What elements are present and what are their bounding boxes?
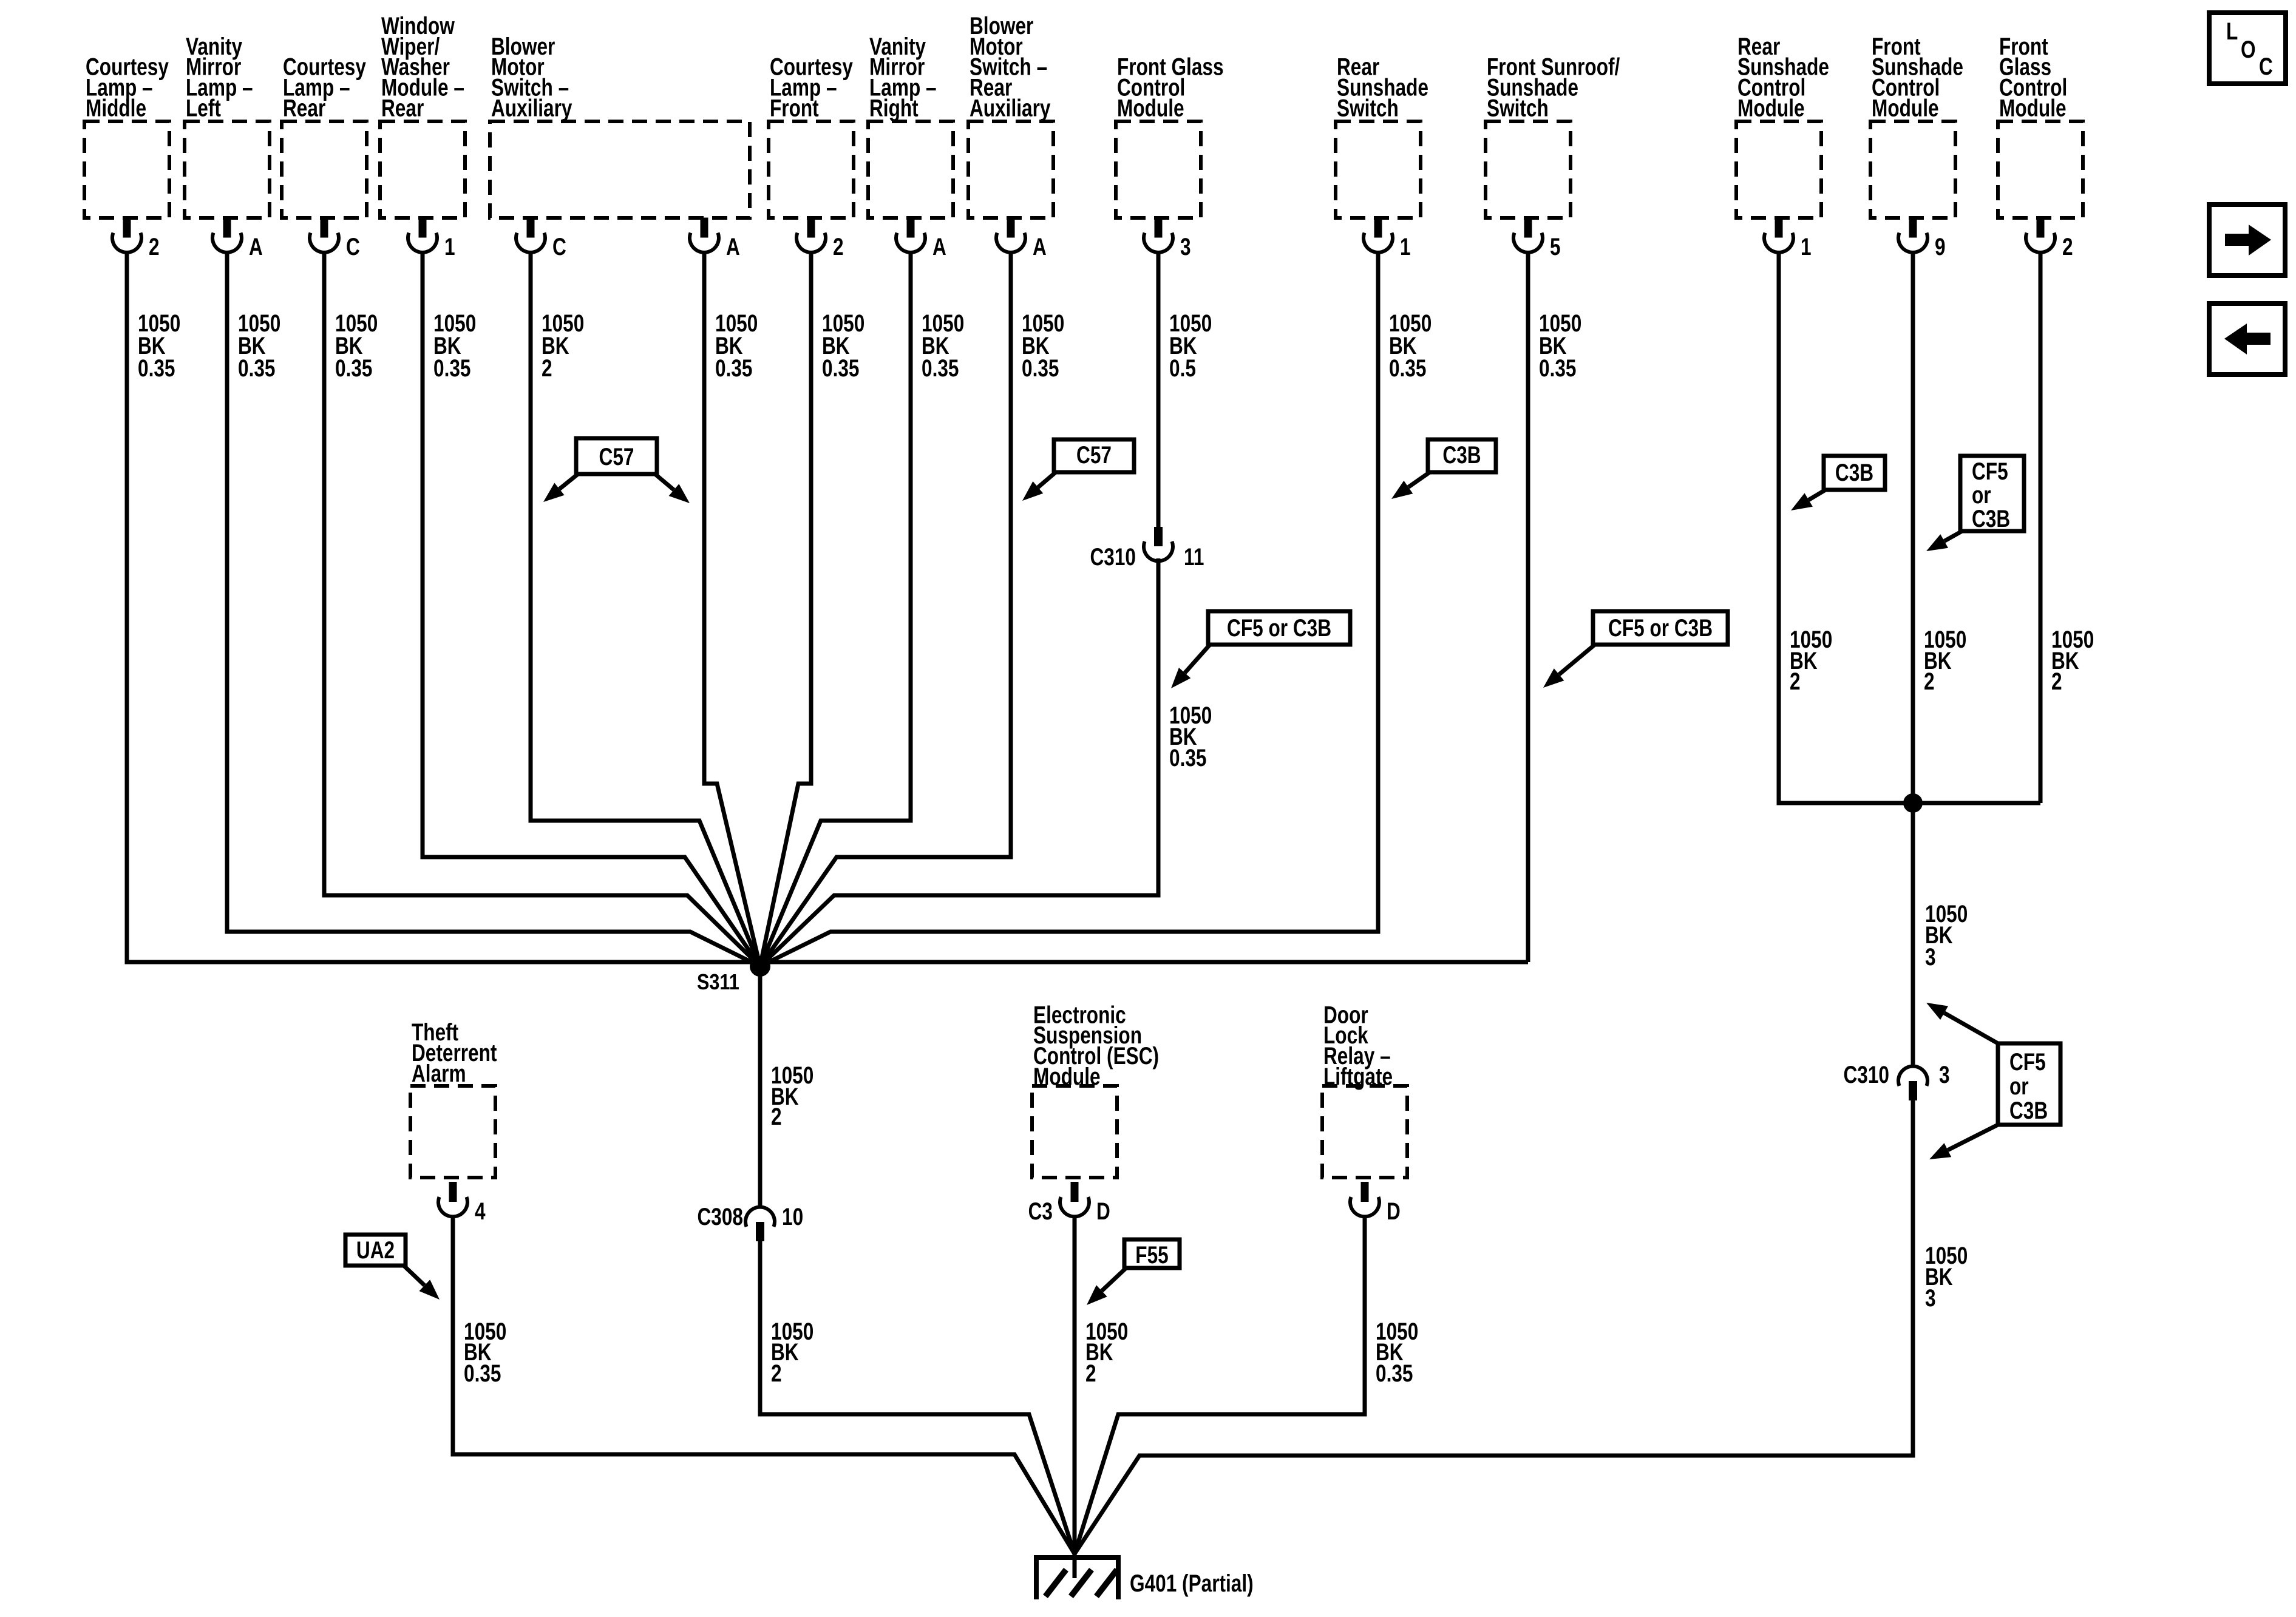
svg-text:9: 9 bbox=[1935, 232, 1946, 260]
svg-text:11: 11 bbox=[1184, 543, 1204, 570]
svg-text:3: 3 bbox=[1939, 1060, 1950, 1088]
wire label 1050 BK 0.35 bbox=[715, 309, 758, 381]
blower motor switch - auxiliary bbox=[490, 32, 750, 218]
theft deterrent alarm bbox=[410, 1019, 497, 1178]
wire label 1050 BK 0.35 bbox=[433, 309, 476, 381]
pin 2 of courtesy lamp - front bbox=[796, 218, 844, 260]
wire label 1050 BK 2 (front sunshade control module) bbox=[1924, 625, 1966, 694]
vanity mirror lamp - right bbox=[868, 32, 953, 218]
wire label 1050 BK 0.5 bbox=[1169, 309, 1212, 381]
wire label 1050 BK 0.35 bbox=[922, 309, 964, 381]
courtesy lamp - front bbox=[769, 53, 854, 218]
wire label 1050 BK 0.35 bbox=[238, 309, 280, 381]
wire label 1050 BK 0.35 (below C310) bbox=[1169, 701, 1212, 771]
pin 3 of front glass control module bbox=[1144, 218, 1191, 260]
courtesy lamp - rear bbox=[282, 53, 367, 218]
wire C310 pin 3 to ground bus bbox=[1075, 1100, 1913, 1554]
left arrow box bbox=[2209, 303, 2285, 375]
wire label 1050 BK 0.35 bbox=[335, 309, 378, 381]
wire label 1050 BK 0.35 bbox=[138, 309, 180, 381]
svg-text:G401 (Partial): G401 (Partial) bbox=[1130, 1569, 1254, 1596]
wire blower motor switch auxiliary pin C to S311 bbox=[531, 252, 760, 966]
wire C308 pin 10 to ground bus bbox=[760, 1238, 1075, 1554]
LOC legend box bbox=[2209, 13, 2286, 84]
wire front glass control module to C310 pin 11 bbox=[1156, 252, 1161, 528]
svg-text:A: A bbox=[249, 232, 263, 260]
wire label 1050 BK 2 bbox=[542, 309, 584, 381]
in-line connector C310 pin 11 bbox=[1090, 527, 1204, 571]
pin 9 of front sunshade control module bbox=[1898, 218, 1946, 260]
svg-text:0.35: 0.35 bbox=[1539, 354, 1576, 381]
front sunshade control module bbox=[1870, 32, 1963, 218]
vanity mirror lamp - left bbox=[185, 32, 270, 218]
svg-text:Middle: Middle bbox=[86, 94, 146, 121]
front glass control module (right) bbox=[1998, 32, 2083, 218]
front glass control module bbox=[1116, 53, 1224, 218]
wire courtesy lamp rear to S311 bbox=[324, 252, 760, 966]
svg-text:Module: Module bbox=[1117, 94, 1184, 121]
pin C of blower motor switch - auxiliary bbox=[516, 218, 566, 260]
wire theft deterrent alarm to ground bus bbox=[453, 1216, 1075, 1554]
svg-text:L: L bbox=[2226, 17, 2238, 44]
svg-text:Alarm: Alarm bbox=[412, 1059, 466, 1086]
svg-text:0.35: 0.35 bbox=[715, 354, 752, 381]
pin 5 of front sunroof/sunshade switch bbox=[1513, 218, 1561, 260]
svg-text:CF5 or C3B: CF5 or C3B bbox=[1227, 614, 1331, 641]
connector label F55 bbox=[1087, 1239, 1180, 1305]
svg-text:0.35: 0.35 bbox=[433, 354, 470, 381]
svg-text:0.35: 0.35 bbox=[335, 354, 372, 381]
wire label 1050 BK 2 (above C308) bbox=[771, 1061, 813, 1130]
pin 1 of window wiper/washer module - rear bbox=[408, 218, 455, 260]
wire rear sunshade switch to S311 bbox=[760, 252, 1378, 966]
svg-text:2: 2 bbox=[1085, 1359, 1096, 1386]
pin D of door lock relay - liftgate bbox=[1350, 1182, 1401, 1225]
svg-text:3: 3 bbox=[1925, 943, 1936, 970]
wire label 1050 BK 0.35 bbox=[1022, 309, 1064, 381]
svg-text:0.35: 0.35 bbox=[1389, 354, 1426, 381]
pin D of electronic suspension control (ESC) module bbox=[1060, 1182, 1110, 1225]
svg-text:Front: Front bbox=[770, 94, 819, 121]
wire S311 to C308 pin 10 bbox=[758, 966, 763, 1207]
svg-text:C: C bbox=[346, 232, 360, 260]
svg-text:CF5: CF5 bbox=[2009, 1048, 2046, 1075]
svg-text:2: 2 bbox=[771, 1102, 782, 1130]
svg-text:F55: F55 bbox=[1135, 1241, 1168, 1268]
svg-text:2: 2 bbox=[149, 232, 160, 260]
wire front sunshade control module through junction to C310 pin 3 bbox=[1911, 252, 1915, 1066]
pin A of blower motor switch - rear auxiliary bbox=[996, 218, 1047, 260]
wire window wiper/washer module to S311 bbox=[423, 252, 760, 966]
pin A of vanity mirror lamp - left bbox=[212, 218, 263, 260]
svg-text:CF5 or C3B: CF5 or C3B bbox=[1608, 614, 1713, 641]
svg-text:0.35: 0.35 bbox=[138, 354, 175, 381]
svg-text:Right: Right bbox=[869, 94, 919, 121]
wire label 1050 BK 3 (lower) bbox=[1925, 1241, 1968, 1311]
wire ESC module to ground bbox=[1073, 1216, 1077, 1554]
svg-text:C3B: C3B bbox=[2009, 1096, 2048, 1124]
svg-text:2: 2 bbox=[1790, 667, 1801, 694]
svg-text:1: 1 bbox=[1801, 232, 1812, 260]
svg-text:or: or bbox=[2009, 1072, 2029, 1099]
connector label CF5 or C3B (front sunroof/sunshade switch wire) bbox=[1543, 611, 1728, 688]
ground G401 (Partial) bbox=[1036, 1551, 1254, 1599]
svg-text:2: 2 bbox=[833, 232, 844, 260]
blower motor switch - rear auxiliary bbox=[968, 12, 1053, 218]
svg-text:Auxiliary: Auxiliary bbox=[970, 94, 1050, 121]
svg-text:D: D bbox=[1096, 1197, 1110, 1224]
svg-text:C308: C308 bbox=[697, 1202, 743, 1230]
svg-text:D: D bbox=[1387, 1197, 1401, 1224]
wire blower motor switch rear auxiliary to S311 bbox=[760, 252, 1011, 966]
wire courtesy lamp middle to S311 (ground bus) bbox=[127, 252, 1528, 962]
connector label CF5 or C3B (front glass control module wire) bbox=[1171, 611, 1350, 688]
wire label 1050 BK 2 (ESC module) bbox=[1085, 1317, 1128, 1386]
window wiper/washer module - rear bbox=[380, 12, 465, 218]
svg-text:C: C bbox=[2259, 52, 2273, 80]
svg-text:C3B: C3B bbox=[1442, 441, 1481, 468]
svg-text:A: A bbox=[1033, 232, 1047, 260]
svg-text:0.35: 0.35 bbox=[922, 354, 959, 381]
wire label 1050 BK 0.35 (door lock relay) bbox=[1376, 1317, 1418, 1386]
electronic suspension control (ESC) module bbox=[1032, 1001, 1159, 1178]
wire blower motor switch auxiliary pin A to S311 bbox=[704, 252, 760, 966]
rear sunshade control module bbox=[1736, 32, 1829, 218]
junction node (right modules) bbox=[1903, 793, 1923, 813]
wire label 1050 BK 0.35 (theft deterrent alarm) bbox=[464, 1317, 506, 1386]
in-line connector C308 pin 10 bbox=[697, 1202, 803, 1241]
connector label CF5 or C3B (front sunshade control module wire) bbox=[1926, 456, 2024, 551]
svg-text:C3: C3 bbox=[1028, 1197, 1053, 1224]
svg-text:UA2: UA2 bbox=[356, 1236, 395, 1263]
svg-text:O: O bbox=[2241, 35, 2256, 63]
svg-text:C57: C57 bbox=[599, 442, 634, 470]
svg-text:1: 1 bbox=[444, 232, 455, 260]
in-line connector C310 pin 3 bbox=[1843, 1060, 1949, 1100]
pin C of courtesy lamp - rear bbox=[310, 218, 360, 260]
svg-text:2: 2 bbox=[542, 354, 552, 381]
wire vanity mirror right to S311 bbox=[760, 252, 911, 966]
connector label C57 (blower motor switch rear auxiliary) bbox=[1022, 439, 1134, 501]
svg-text:2: 2 bbox=[1924, 667, 1935, 694]
pin A of vanity mirror lamp - right bbox=[896, 218, 946, 260]
wire label 1050 BK 0.35 bbox=[1389, 309, 1432, 381]
wire door lock relay to ground bus bbox=[1075, 1216, 1365, 1554]
door lock relay - liftgate bbox=[1322, 1001, 1407, 1178]
svg-text:Module: Module bbox=[1872, 94, 1939, 121]
pin 1 of rear sunshade switch bbox=[1364, 218, 1411, 260]
connector label UA2 bbox=[345, 1235, 440, 1300]
splice S311 bbox=[697, 956, 770, 995]
svg-text:Rear: Rear bbox=[283, 94, 325, 121]
svg-text:0.35: 0.35 bbox=[1376, 1359, 1413, 1386]
svg-text:A: A bbox=[932, 232, 946, 260]
wire label 1050 BK 0.35 bbox=[1539, 309, 1581, 381]
wire front sunroof/sunshade switch to S311 bbox=[1526, 252, 1530, 962]
svg-text:3: 3 bbox=[1925, 1284, 1936, 1311]
connector label CF5 or C3B (at C310 pin 3) bbox=[1926, 1003, 2060, 1159]
svg-text:0.35: 0.35 bbox=[238, 354, 275, 381]
svg-text:1: 1 bbox=[1400, 232, 1411, 260]
pin 2 of front glass control module (right) bbox=[2026, 218, 2073, 260]
front sunroof/sunshade switch bbox=[1486, 53, 1620, 218]
svg-text:0.5: 0.5 bbox=[1169, 354, 1196, 381]
svg-text:10: 10 bbox=[782, 1202, 803, 1230]
wire courtesy lamp front to S311 bbox=[760, 252, 811, 966]
svg-text:2: 2 bbox=[771, 1359, 782, 1386]
svg-text:0.35: 0.35 bbox=[1022, 354, 1059, 381]
courtesy lamp - middle bbox=[84, 53, 169, 218]
svg-text:Module: Module bbox=[1999, 94, 2067, 121]
svg-text:3: 3 bbox=[1180, 232, 1191, 260]
pin 2 of courtesy lamp - middle bbox=[112, 218, 160, 260]
svg-text:A: A bbox=[726, 232, 740, 260]
svg-text:0.35: 0.35 bbox=[822, 354, 859, 381]
svg-text:C310: C310 bbox=[1090, 543, 1136, 570]
wire label 1050 BK 3 (upper) bbox=[1925, 900, 1968, 970]
wire rear sunshade control module to junction bbox=[1779, 252, 2040, 803]
svg-text:C3B: C3B bbox=[1972, 504, 2010, 532]
pin 1 of rear sunshade control module bbox=[1764, 218, 1812, 260]
right arrow box bbox=[2209, 205, 2285, 276]
svg-text:Module: Module bbox=[1737, 94, 1805, 121]
svg-text:Switch: Switch bbox=[1337, 94, 1399, 121]
wire label 1050 BK 2 (below C308) bbox=[771, 1317, 813, 1386]
svg-text:5: 5 bbox=[1550, 232, 1561, 260]
connector label C57 (blower motor switch auxiliary) bbox=[543, 438, 690, 503]
svg-text:Switch: Switch bbox=[1487, 94, 1549, 121]
svg-text:Left: Left bbox=[186, 94, 221, 121]
svg-text:0.35: 0.35 bbox=[464, 1359, 501, 1386]
pin 4 of theft deterrent alarm bbox=[438, 1182, 486, 1225]
svg-text:Auxiliary: Auxiliary bbox=[491, 94, 572, 121]
wire label 1050 BK 0.35 bbox=[822, 309, 864, 381]
svg-text:C3B: C3B bbox=[1835, 458, 1873, 486]
wire C310 pin 11 to S311 bbox=[760, 558, 1158, 966]
svg-text:C310: C310 bbox=[1843, 1060, 1889, 1088]
svg-text:C: C bbox=[552, 232, 566, 260]
connector label C3B (rear sunshade switch) bbox=[1391, 439, 1496, 499]
svg-text:Rear: Rear bbox=[381, 94, 424, 121]
svg-text:0.35: 0.35 bbox=[1169, 744, 1206, 771]
wire label 1050 BK 2 (front glass control module right) bbox=[2051, 625, 2094, 694]
svg-text:2: 2 bbox=[2051, 667, 2062, 694]
wire vanity mirror left to S311 bbox=[227, 252, 760, 966]
svg-text:2: 2 bbox=[2062, 232, 2073, 260]
connector label C3B (rear sunshade control module wire) bbox=[1791, 456, 1885, 510]
wire front glass control module (right) to junction bbox=[2039, 252, 2043, 803]
svg-text:4: 4 bbox=[475, 1197, 486, 1224]
wire label 1050 BK 2 (rear sunshade control module) bbox=[1790, 625, 1832, 694]
pin A of blower motor switch - auxiliary bbox=[690, 218, 740, 260]
svg-text:C57: C57 bbox=[1076, 441, 1112, 468]
svg-text:S311: S311 bbox=[697, 971, 739, 995]
rear sunshade switch bbox=[1336, 53, 1428, 218]
